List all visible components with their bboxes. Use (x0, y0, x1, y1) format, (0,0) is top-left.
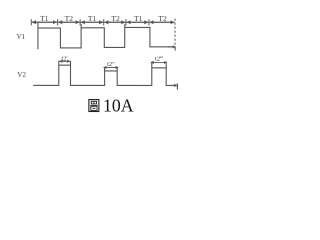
arrow T1 interval 3 (81, 21, 103, 23)
svg-text:V2: V2 (17, 71, 26, 79)
tick T-row 1 (30, 19, 32, 25)
tick T-row 2 (57, 19, 59, 25)
svg-text:t2‴: t2‴ (155, 55, 163, 62)
svg-text:T2: T2 (111, 14, 120, 23)
svg-text:T1: T1 (134, 14, 143, 23)
tick T-row 5 (125, 19, 127, 25)
pulse width arrow t2' (59, 60, 70, 62)
svg-text:10A: 10A (103, 96, 134, 116)
svg-text:t2′: t2′ (61, 55, 68, 62)
tick T-row 6 (148, 19, 150, 25)
arrow T1 interval 1 (32, 21, 57, 23)
arrow T2 interval 6 (150, 21, 175, 23)
arrow T2 interval 4 (104, 21, 125, 23)
tick T-row 3 (79, 19, 81, 25)
arrow T2 interval 2 (58, 21, 79, 23)
waveform V1 (38, 22, 171, 49)
arrow T1 interval 5 (127, 21, 149, 23)
svg-text:T2: T2 (65, 14, 74, 23)
svg-text:t2″: t2″ (107, 61, 115, 68)
svg-text:T1: T1 (40, 14, 49, 23)
pulse width arrow t2'' (104, 66, 119, 68)
tick T-row 4 (103, 19, 105, 25)
svg-text:V1: V1 (17, 33, 26, 41)
caption glyph 圖 (drawn) (89, 100, 99, 112)
dashed boundary line (174, 19, 176, 50)
pulse width arrow t2''' (151, 61, 167, 63)
V1 end arrow at dashed line (168, 46, 176, 48)
waveform V2 (33, 61, 177, 90)
V2 end arrow and tick (170, 84, 177, 86)
svg-text:T1: T1 (88, 14, 97, 23)
svg-text:T2: T2 (158, 14, 167, 23)
